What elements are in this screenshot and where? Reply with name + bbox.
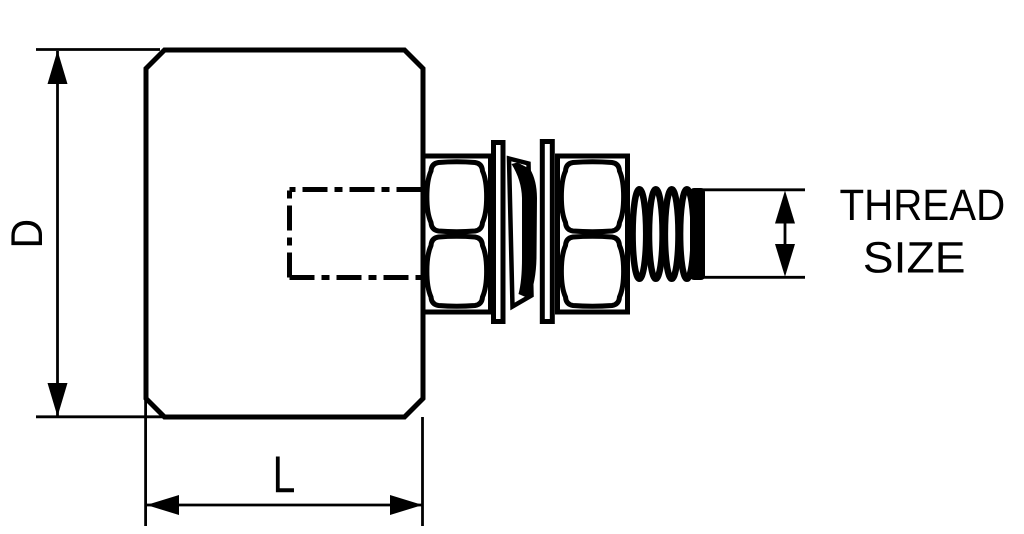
hidden bore top line (dash-dot) <box>290 187 422 192</box>
D dimension extension line bottom <box>36 415 166 418</box>
thread loop 4 <box>680 189 694 279</box>
hidden bore left line (dash-dot) <box>287 190 292 278</box>
hex nut 1 <box>423 156 491 312</box>
thread size arrow up <box>775 191 795 224</box>
D arrow down <box>48 383 68 417</box>
hidden bore bottom line (dash-dot) <box>290 275 422 280</box>
hex nut 2 <box>558 156 628 312</box>
thread size arrow down <box>775 244 795 277</box>
label D <box>11 221 42 245</box>
label L <box>276 457 294 493</box>
spring washer split (dark overlap) <box>512 163 538 299</box>
nut1 bottom face barrel <box>427 236 487 306</box>
spring washer <box>509 159 532 307</box>
thread size extension line top <box>700 188 805 191</box>
L extension line left <box>144 398 147 526</box>
thread size dimension shaft <box>784 223 787 245</box>
thread size extension line bottom <box>700 276 805 279</box>
D arrow up <box>48 51 68 85</box>
nut1 top face barrel <box>427 162 487 232</box>
nut2 top face barrel <box>561 162 623 232</box>
thread loop 2 <box>649 189 663 279</box>
label SIZE <box>865 242 964 273</box>
thread loop 3 <box>665 189 679 279</box>
thread end (solid) <box>690 188 705 280</box>
nut2 bottom face barrel <box>561 236 623 306</box>
D dimension extension line top <box>36 48 160 51</box>
L dimension line <box>147 504 422 507</box>
D dimension line <box>56 51 59 416</box>
L extension line right <box>421 417 424 526</box>
L arrow right <box>390 495 423 515</box>
flat washer 2 <box>542 142 552 322</box>
label THREAD <box>840 190 1003 220</box>
roller body <box>146 50 423 417</box>
thread loop 1 <box>633 189 647 279</box>
flat washer 1 <box>494 143 504 322</box>
L arrow left <box>147 495 180 515</box>
